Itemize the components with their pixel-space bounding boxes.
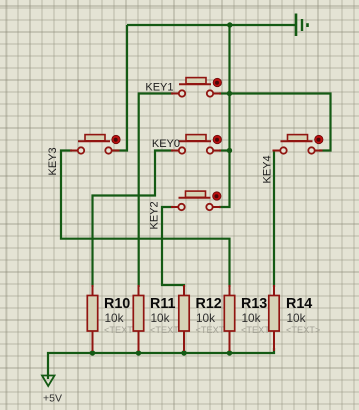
resistor R14 <box>269 285 320 351</box>
node: junction R12 bottom <box>181 350 186 355</box>
wire: bottom +5V rail <box>48 348 274 379</box>
power +5V <box>42 376 62 405</box>
resistor R10 <box>87 285 138 351</box>
wire: KEY0 right pin link <box>219 149 230 151</box>
svg-text:10k: 10k <box>151 311 170 325</box>
wire: KEY4 left pin to R14 <box>273 151 275 288</box>
resistor R13 <box>224 285 275 351</box>
button KEY1 <box>145 78 221 97</box>
wire: rail drop KEY0 to KEY2 right pin <box>219 151 230 208</box>
svg-text:R12: R12 <box>196 296 222 312</box>
svg-text:10k: 10k <box>242 311 261 325</box>
node: junction R13 bottom <box>227 350 232 355</box>
svg-text:R10: R10 <box>104 296 130 312</box>
ground <box>296 14 308 37</box>
node: junction KEY1 <box>227 91 232 96</box>
svg-text:KEY0: KEY0 <box>152 138 180 150</box>
wire: KEY1 right pin link <box>219 92 230 94</box>
svg-text:R11: R11 <box>150 296 175 312</box>
resistor R12 <box>179 285 230 351</box>
svg-text:10k: 10k <box>196 311 215 325</box>
svg-text:+5V: +5V <box>43 393 62 405</box>
svg-text:R13: R13 <box>241 296 267 312</box>
wire: KEY1 left pin to R11 <box>139 94 173 288</box>
node: junction R11 bottom <box>136 350 141 355</box>
svg-text:KEY2: KEY2 <box>149 201 161 229</box>
wire: rail branch to KEY4 <box>230 94 331 151</box>
svg-text:KEY3: KEY3 <box>47 147 59 175</box>
wire: KEY3 left pin to R13 <box>61 151 230 288</box>
svg-text:10k: 10k <box>105 311 124 325</box>
svg-text:KEY1: KEY1 <box>145 82 173 94</box>
node: junction KEY0 <box>227 148 232 153</box>
button KEY2 <box>149 191 222 229</box>
wire: KEY2 left pin jog to R12 <box>162 207 184 287</box>
wire: rail drop KEY1 to KEY0 <box>228 94 230 151</box>
wire: rail drop to KEY1 right pin <box>228 25 230 94</box>
wire: KEY0 left pin jog to R10 <box>93 151 174 288</box>
svg-text:10k: 10k <box>287 311 306 325</box>
svg-text:KEY4: KEY4 <box>262 155 274 183</box>
resistor R11 <box>133 285 184 351</box>
button KEY3 <box>47 135 120 176</box>
svg-text:R14: R14 <box>286 296 312 312</box>
button KEY0 <box>152 135 222 154</box>
node: junction top rail <box>227 22 232 27</box>
node: junction R10 bottom <box>90 350 95 355</box>
svg-text:<TEXT>: <TEXT> <box>286 325 320 335</box>
wire: left drop from rail to KEY3 row <box>113 25 127 151</box>
button KEY4 <box>262 135 323 184</box>
wire: top ground rail <box>127 24 296 26</box>
